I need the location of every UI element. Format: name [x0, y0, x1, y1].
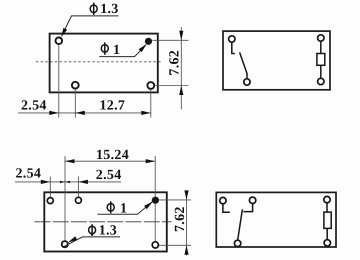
node: hole top row 1 — [47, 198, 53, 204]
svg-text:2.54: 2.54 — [96, 168, 122, 183]
node: pin circle switch bottom (NO) — [244, 79, 250, 85]
wire: switch armature (open contact) — [240, 52, 247, 78]
node: hole bottom-right (bottom drawing) — [152, 242, 158, 248]
svg-text:1.3: 1.3 — [99, 224, 117, 239]
wire: extension line down from top-left hole — [58, 45, 60, 117]
svg-text:2.54: 2.54 — [21, 98, 47, 113]
wire: coil bottom connector (bottom schematic) — [326, 228, 328, 239]
node: PCB outline rect (bottom view) — [44, 192, 167, 251]
wire: coil bottom connector — [320, 65, 322, 78]
dimension 7.62 (bottom drawing, right side) — [173, 190, 188, 255]
node: hole bottom-left (phi 1.3, bottom drawing) — [62, 241, 68, 247]
dimension 15.24 (bottom drawing, top) — [65, 148, 155, 163]
node: hole top row 2 — [75, 197, 81, 203]
label: phi 1.3 leader (bottom drawing) — [62, 224, 120, 248]
node: hole top-right filled (phi 1) — [145, 38, 152, 45]
wire: extension line up from top hole 1 — [49, 177, 51, 198]
component: relay coil (top schematic) — [317, 54, 325, 66]
dimension 2.54 (top drawing, bottom left) — [18, 98, 151, 115]
node: hole bottom-right — [147, 82, 154, 89]
wire: coil top connector — [320, 41, 322, 53]
svg-text:12.7: 12.7 — [100, 99, 126, 114]
wire: extension line right from bottom-right hole — [159, 244, 191, 246]
label: phi 1.3 leader (top) — [61, 2, 119, 37]
svg-text:2.54: 2.54 — [16, 166, 42, 181]
dimension 2.54 first (bottom drawing) — [15, 166, 121, 184]
wire: switch fixed contact stub — [232, 43, 235, 54]
node: pin circle coil top (bottom schematic) — [324, 196, 330, 202]
svg-text:7.62: 7.62 — [173, 206, 188, 232]
label: phi 1 leader (bottom drawing) — [98, 201, 153, 216]
svg-text:1.3: 1.3 — [100, 2, 118, 17]
wire: extension line right from filled hole — [159, 199, 191, 201]
wire: extension line up from bottom-right hole — [154, 156, 156, 242]
node: schematic box outline (bottom) — [216, 192, 336, 247]
node: pin circle top-left — [220, 197, 226, 203]
node: schematic box outline (top) — [223, 31, 330, 90]
svg-text:1: 1 — [113, 43, 120, 58]
wire: stub from top-middle pin — [243, 204, 252, 212]
wire: coil top connector (bottom schematic) — [326, 203, 328, 212]
node: hole top-right filled (phi 1, bottom drawing) — [152, 197, 159, 204]
node: pin circle top-middle — [249, 197, 255, 203]
wire: extension line down from bottom-right hole — [150, 90, 152, 118]
wire: extension line right from top-right hole — [152, 39, 188, 41]
component: relay coil (bottom schematic) — [324, 212, 331, 228]
wire: centerline of top PCB view — [36, 61, 163, 63]
node: pin circle coil bottom (bottom schematic) — [324, 240, 330, 246]
wire: extension line right from bottom-right hole — [155, 85, 188, 87]
node: PCB outline rect (top view) — [50, 34, 158, 93]
node: pin circle coil bottom — [318, 78, 324, 84]
wire: extension line up from bottom-left hole — [64, 156, 66, 241]
node: pin circle coil top — [318, 35, 324, 41]
wire: extension line up from top hole 2 — [77, 177, 79, 198]
svg-text:7.62: 7.62 — [167, 50, 182, 76]
node: pin circle bottom-middle — [234, 240, 240, 246]
wire: L-stub from top-left pin — [223, 204, 230, 212]
dimension 12.7 (top drawing, bottom) — [75, 99, 151, 115]
node: hole bottom-left — [72, 82, 79, 89]
dimension 7.62 (top drawing, right side) — [167, 27, 183, 110]
node: pin circle top-left (COM) — [229, 36, 235, 42]
dimension 2.54 second (bottom drawing) — [78, 168, 121, 184]
wire: extension line down from bottom-left hole — [74, 90, 76, 118]
label: phi 1 leader (top drawing) — [99, 42, 147, 57]
wire: centerline of bottom PCB view — [35, 221, 172, 223]
node: hole top-left (phi 1.3) — [56, 38, 63, 45]
wire: armature from bottom pin (closed contact) — [238, 209, 243, 240]
